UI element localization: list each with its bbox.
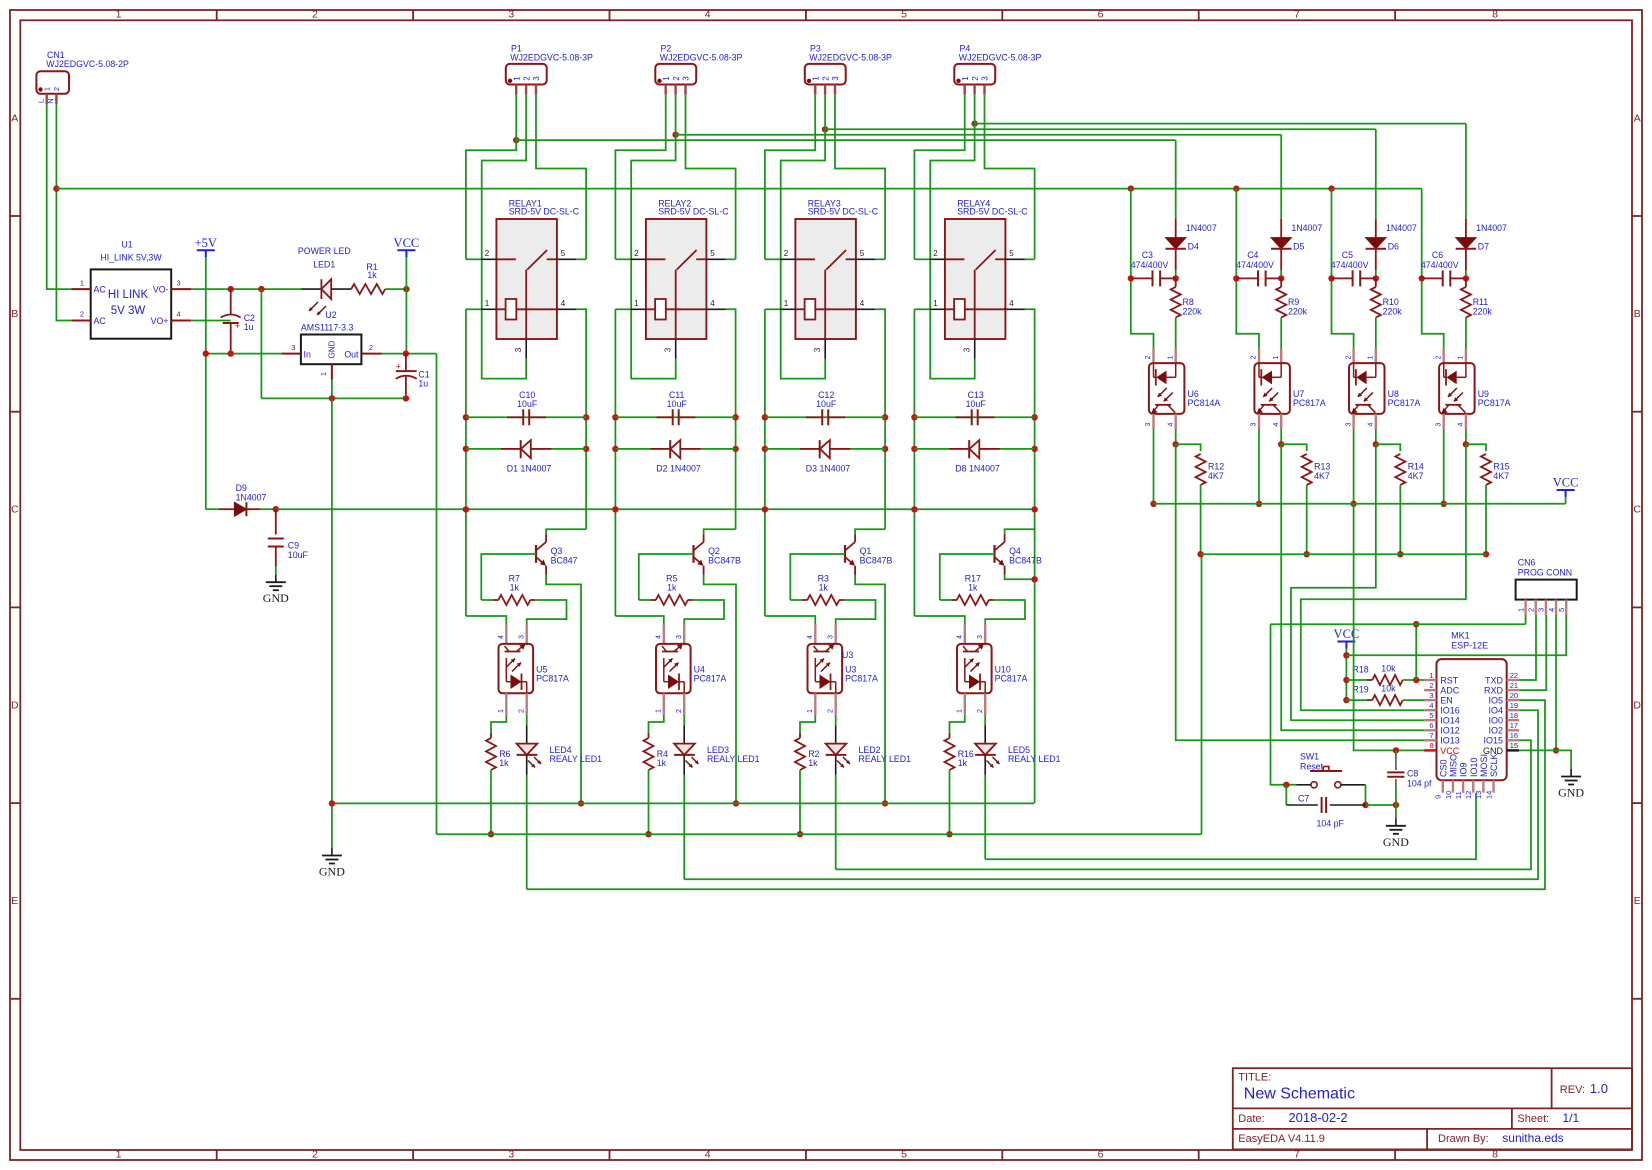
diode D6 1N4007 (1366, 219, 1417, 279)
svg-text:2: 2 (312, 9, 318, 21)
svg-text:4: 4 (807, 635, 814, 639)
wire opto pin4 junction (1465, 429, 1467, 444)
svg-text:8: 8 (1492, 9, 1498, 21)
svg-text:CS0: CS0 (1438, 759, 1448, 777)
svg-text:CN6: CN6 (1518, 558, 1536, 568)
connector CN6 PROG CONN (1516, 558, 1577, 615)
junction R1 / VCC riser (403, 286, 409, 292)
svg-text:1N4007: 1N4007 (1386, 223, 1417, 233)
svg-text:Sheet:: Sheet: (1517, 1113, 1549, 1125)
svg-text:4: 4 (957, 635, 964, 639)
svg-text:6: 6 (1429, 721, 1433, 730)
svg-text:AMS1117-3.3: AMS1117-3.3 (301, 323, 354, 333)
junction C4 right (1278, 275, 1284, 281)
wire P4 pin2 to relay pin3 (930, 95, 975, 379)
resistor R18 10k (1346, 663, 1424, 685)
junction CN1 pin2 / AC bus (53, 185, 59, 191)
wire D2 flyback row (615, 448, 735, 450)
wire VCC branch riser to LED bus (436, 354, 438, 835)
wire relay1 pin1 down (466, 308, 481, 310)
svg-text:2: 2 (1527, 608, 1536, 612)
wire snubber feed down to D6 (1375, 129, 1377, 219)
wire D8 flyback row (914, 448, 1034, 450)
resistor R6 1k (486, 733, 511, 834)
optocoupler U9 PC817A (1435, 349, 1510, 430)
wire snubber bus P1 (516, 139, 1175, 141)
svg-text:5: 5 (1009, 249, 1014, 258)
wire relay3 pin5 stub (875, 258, 885, 260)
wire base of Q1 (790, 554, 845, 600)
svg-text:2: 2 (1429, 681, 1433, 690)
ground symbol C8 (1395, 818, 1397, 826)
wire P2 pin3 to relay pin5 (686, 95, 736, 260)
svg-text:3: 3 (177, 278, 181, 287)
svg-text:2: 2 (1145, 355, 1152, 359)
svg-text:1: 1 (957, 709, 964, 713)
relay RELAY4 SRD-5V DC-SL-C (929, 198, 1028, 358)
wire R17 to opto pin3 (985, 600, 1025, 624)
regulator U2 AMS1117-3.3 (281, 310, 381, 380)
svg-text:3: 3 (1145, 422, 1152, 426)
svg-text:10: 10 (1444, 791, 1453, 799)
wire relay2 pin1 down (615, 308, 630, 310)
junction R14 / pullup bus (1397, 551, 1403, 557)
wire channel 2 signal to ESP (1281, 444, 1424, 730)
svg-text:1: 1 (80, 278, 84, 287)
svg-text:IO2: IO2 (1488, 726, 1503, 736)
wire relay4 pin1 down (914, 308, 929, 310)
wire R5 to opto pin3 (684, 600, 724, 624)
transistor Q1 BC847B (845, 534, 892, 575)
svg-text:1k: 1k (657, 758, 667, 768)
svg-text:N: N (46, 98, 55, 103)
svg-text:4: 4 (860, 299, 865, 308)
svg-text:E: E (1634, 895, 1641, 907)
capacitor C11 10uF (657, 390, 696, 425)
resistor R2 1k (795, 733, 820, 834)
svg-text:4: 4 (1547, 608, 1556, 612)
wire CN6 pin2 to TXD (1519, 615, 1536, 680)
svg-text:1: 1 (662, 76, 671, 81)
wire RST net riser (1415, 624, 1417, 680)
capacitor C13 10uF (956, 390, 995, 425)
wire channel 3 signal to ESP (1291, 444, 1424, 720)
junction emitter / GND bus (578, 800, 584, 806)
svg-text:SW1: SW1 (1300, 752, 1319, 762)
wire snubber bus P3 (825, 128, 1376, 130)
svg-text:1: 1 (512, 76, 521, 81)
svg-text:D: D (1633, 699, 1641, 711)
wire P1 pin1 to relay pin2 (466, 95, 516, 260)
svg-text:6: 6 (1098, 9, 1104, 21)
wire base of Q2 (639, 554, 694, 600)
svg-text:R9: R9 (1288, 297, 1299, 307)
wire opto pin4 junction (1375, 429, 1377, 444)
svg-text:4: 4 (1273, 422, 1280, 426)
diode D3 1N4007 (800, 440, 850, 473)
capacitor C12 10uF (806, 390, 845, 425)
svg-text:PC817A: PC817A (1293, 398, 1326, 408)
junction SW1 right / C7 row (1362, 802, 1368, 808)
resistor R16 1k (945, 733, 974, 834)
capacitor C2 1u (221, 289, 255, 354)
svg-text:5: 5 (1429, 711, 1433, 720)
junction D2 row right (732, 446, 738, 452)
svg-text:1k: 1k (968, 583, 978, 593)
svg-text:GND: GND (1558, 786, 1584, 800)
svg-text:ESP-12E: ESP-12E (1451, 640, 1488, 650)
svg-text:2: 2 (80, 310, 84, 319)
wire collector feed (855, 529, 885, 534)
svg-text:REALY LED1: REALY LED1 (550, 754, 603, 764)
junction C3 right (1173, 275, 1179, 281)
svg-text:L: L (37, 99, 46, 103)
junction C12 row right (882, 414, 888, 420)
junction R16 / VCC LED bus (946, 831, 952, 837)
junction +5V bus col4 (911, 506, 917, 512)
junction D8 row left (911, 446, 917, 452)
wire GND riser from VO- row (260, 289, 262, 398)
svg-text:3: 3 (1429, 691, 1433, 700)
svg-text:U3: U3 (842, 650, 853, 660)
wire opto pin1 to R6 (491, 715, 506, 733)
diode D1 1N4007 (501, 440, 551, 473)
wire GND row under U2 (261, 397, 406, 399)
svg-text:2018-02-2: 2018-02-2 (1288, 1110, 1347, 1125)
switch SW1 Reset (1296, 752, 1365, 788)
junction C2 / In row (228, 350, 234, 356)
svg-text:HI_LINK 5V,3W: HI_LINK 5V,3W (100, 253, 162, 263)
optocoupler U5 PC817A (498, 624, 569, 715)
svg-text:AC: AC (94, 285, 107, 295)
svg-text:20: 20 (1510, 691, 1518, 700)
svg-text:WJ2EDGVC-5.08-2P: WJ2EDGVC-5.08-2P (46, 59, 129, 69)
svg-text:IO12: IO12 (1440, 726, 1460, 736)
junction +5V bus col1 (463, 506, 469, 512)
diode D7 1N4007 (1456, 219, 1507, 279)
resistor R14 4K7 (1395, 454, 1424, 554)
wire pullup bus (1201, 553, 1486, 555)
svg-text:WJ2EDGVC-5.08-3P: WJ2EDGVC-5.08-3P (809, 53, 892, 63)
svg-text:SCLK: SCLK (1489, 753, 1499, 777)
svg-text:10k: 10k (1381, 663, 1396, 673)
svg-text:5V 3W: 5V 3W (111, 305, 146, 317)
svg-text:PROG CONN: PROG CONN (1518, 568, 1572, 578)
svg-text:4: 4 (1368, 422, 1375, 426)
svg-text:2: 2 (52, 87, 61, 91)
svg-text:C4: C4 (1247, 250, 1258, 260)
svg-text:C: C (11, 504, 19, 516)
svg-text:Drawn By:: Drawn By: (1438, 1133, 1489, 1145)
svg-text:U2: U2 (325, 310, 336, 320)
svg-text:D8 1N4007: D8 1N4007 (955, 463, 1000, 473)
wire pin4 to R14 (1376, 444, 1401, 451)
wire LED2 row to ESP IO15 (836, 740, 1531, 869)
svg-text:2: 2 (1345, 355, 1352, 359)
junction +5V bus col2 (612, 506, 618, 512)
resistor R12 4K7 (1196, 454, 1225, 554)
wire C12 snubber row (765, 416, 885, 418)
svg-text:Q2: Q2 (708, 546, 720, 556)
svg-text:3: 3 (1345, 422, 1352, 426)
svg-text:R19: R19 (1353, 685, 1369, 695)
optocoupler U10 PC817A (957, 624, 1028, 715)
svg-text:REV:: REV: (1560, 1084, 1585, 1096)
wire AC live bus (56, 188, 1421, 190)
svg-text:REALY LED1: REALY LED1 (859, 754, 912, 764)
svg-text:1: 1 (116, 9, 122, 21)
resistor R13 4K7 (1302, 454, 1331, 554)
svg-text:+: + (396, 362, 401, 372)
svg-text:RST: RST (1440, 675, 1459, 685)
junction AC bus col C3 (1128, 185, 1134, 191)
svg-text:21: 21 (1510, 681, 1518, 690)
wire U1 pin3 row (VO-) (191, 288, 301, 290)
wire opto pin1 to R4 (649, 715, 664, 733)
svg-text:1k: 1k (499, 758, 509, 768)
svg-text:3: 3 (291, 343, 295, 352)
resistor R7 1k (481, 574, 535, 606)
svg-text:GND: GND (1383, 835, 1409, 849)
svg-text:10uF: 10uF (966, 399, 987, 409)
svg-text:2: 2 (1251, 355, 1258, 359)
svg-text:GND: GND (319, 865, 345, 879)
wire GND bus horizontal (332, 802, 1034, 804)
junction CN6 pin4 / GND row (1553, 747, 1559, 753)
wire +5V bus jog to opto pin4 (615, 616, 663, 624)
wire P3 pin3 to relay pin5 (835, 95, 885, 260)
svg-text:9: 9 (1434, 795, 1443, 799)
junction VCC/CN6 pin5 wire (1343, 652, 1349, 658)
svg-text:A: A (1634, 112, 1641, 124)
junction D9 / +5V bus (273, 506, 279, 512)
connector CN1 WJ2EDGVC-5.08-2P (36, 50, 129, 104)
svg-text:C7: C7 (1298, 794, 1309, 804)
svg-text:New Schematic: New Schematic (1244, 1086, 1355, 1103)
junction R13 / pullup bus (1304, 551, 1310, 557)
svg-text:4: 4 (1009, 299, 1014, 308)
wire LED5 cathode down (984, 775, 986, 859)
svg-text:WJ2EDGVC-5.08-3P: WJ2EDGVC-5.08-3P (660, 53, 743, 63)
svg-text:1k: 1k (510, 583, 520, 593)
transistor Q3 BC847 (536, 534, 578, 575)
capacitor C9 10uF (268, 509, 309, 575)
svg-text:BC847B: BC847B (1009, 556, 1042, 566)
junction GND bus left (329, 800, 335, 806)
junction pin3 VCC bus (1256, 501, 1262, 507)
svg-text:3: 3 (676, 635, 683, 639)
svg-text:2: 2 (518, 709, 525, 713)
resistor R5 1k (639, 574, 693, 606)
junction R12 / pullup bus (1197, 551, 1203, 557)
svg-text:5: 5 (1557, 608, 1566, 612)
svg-text:104 pF: 104 pF (1317, 819, 1345, 829)
wire AC bus to opto pin2 (C6 column) (1422, 189, 1444, 349)
wire VCC riser (405, 257, 407, 354)
svg-text:19: 19 (1510, 701, 1518, 710)
svg-text:SRD-5V DC-SL-C: SRD-5V DC-SL-C (509, 207, 580, 217)
svg-text:2: 2 (971, 76, 980, 81)
power module U1 HI_LINK 5V,3W (71, 239, 191, 338)
svg-text:IO0: IO0 (1488, 716, 1503, 726)
svg-text:REALY LED1: REALY LED1 (1008, 754, 1061, 764)
svg-text:PC817A: PC817A (845, 674, 878, 684)
wire U2 Out to VCC node (382, 353, 437, 355)
svg-text:1N4007: 1N4007 (1186, 223, 1217, 233)
svg-text:6: 6 (1098, 1149, 1104, 1161)
wire SW1 right to C7 row (1365, 785, 1367, 805)
svg-text:IO14: IO14 (1440, 716, 1460, 726)
junction +5V bus end (1031, 506, 1037, 512)
junction VO- / C2 (228, 286, 234, 292)
svg-text:3: 3 (981, 76, 990, 81)
relay RELAY1 SRD-5V DC-SL-C (481, 198, 580, 358)
svg-text:1N4007: 1N4007 (1291, 223, 1322, 233)
svg-text:220k: 220k (1383, 307, 1403, 317)
svg-text:B: B (1634, 308, 1641, 320)
svg-text:Q3: Q3 (551, 546, 563, 556)
svg-text:AC: AC (94, 316, 107, 326)
svg-text:VO+: VO+ (151, 316, 169, 326)
wire relay2 pin4 down (726, 309, 736, 529)
svg-text:2: 2 (522, 76, 531, 81)
svg-text:11: 11 (1454, 791, 1463, 799)
svg-text:A: A (11, 112, 18, 124)
diode D5 1N4007 (1271, 219, 1322, 279)
resistor R17 1k (940, 574, 994, 606)
ground symbol right (1570, 769, 1572, 777)
junction +5V riser / In row (203, 350, 209, 356)
junction P3 snubber bus tap (822, 126, 828, 132)
optocoupler U6 PC814A (1145, 349, 1220, 430)
wire P3 pin1 to relay pin2 (765, 95, 815, 260)
svg-text:2: 2 (784, 249, 789, 258)
svg-text:D3 1N4007: D3 1N4007 (806, 463, 851, 473)
svg-text:4K7: 4K7 (1408, 471, 1424, 481)
svg-text:5: 5 (901, 9, 907, 21)
wire pin4 to R12 (1176, 444, 1201, 451)
wire P4 pin1 to relay pin2 (914, 95, 964, 260)
svg-text:GND: GND (328, 340, 337, 358)
junction VO- / GND riser (258, 286, 264, 292)
svg-text:1k: 1k (958, 758, 968, 768)
svg-text:2: 2 (369, 343, 373, 352)
junction C5 right (1373, 275, 1379, 281)
svg-text:C: C (1633, 504, 1641, 516)
svg-text:2: 2 (827, 709, 834, 713)
wire emitter of Q1 (855, 575, 885, 804)
junction D3 row left (762, 446, 768, 452)
junction C7 row / C8 bottom (1393, 802, 1399, 808)
junction AC bus col C5 (1328, 185, 1334, 191)
svg-text:3: 3 (1251, 422, 1258, 426)
svg-text:3: 3 (827, 635, 834, 639)
svg-text:2: 2 (977, 709, 984, 713)
junction P4 snubber bus tap (971, 120, 977, 126)
junction R2 / VCC LED bus (797, 831, 803, 837)
wire emitter of Q3 (546, 575, 581, 804)
wire LED3 cathode down (683, 775, 685, 879)
wire pin4 to R15 (1466, 444, 1486, 451)
svg-text:IO13: IO13 (1440, 736, 1460, 746)
svg-text:17: 17 (1510, 721, 1518, 730)
svg-text:3: 3 (813, 347, 822, 352)
junction emitter / GND bus (882, 800, 888, 806)
junction R18 left (1343, 677, 1349, 683)
resistor R15 4K7 (1481, 454, 1510, 554)
wire snubber feed down to D5 (1280, 135, 1282, 219)
wire relay1 pin5 stub (576, 258, 586, 260)
svg-text:C8: C8 (1407, 769, 1418, 779)
svg-text:EasyEDA V4.11.9: EasyEDA V4.11.9 (1238, 1133, 1325, 1145)
wire relay4 pin4 down (1025, 309, 1035, 803)
svg-text:1.0: 1.0 (1590, 1081, 1608, 1096)
svg-text:3: 3 (664, 347, 673, 352)
svg-text:+: + (235, 321, 240, 331)
junction P2 snubber bus tap (672, 132, 678, 138)
svg-text:1N4007: 1N4007 (1476, 223, 1507, 233)
junction D2 row left (612, 446, 618, 452)
module MK1 ESP-12E (1424, 630, 1519, 799)
resistor R3 1k (790, 574, 844, 606)
wire collector feed (546, 529, 586, 534)
svg-text:220k: 220k (1288, 307, 1308, 317)
wire snubber bus P2 (676, 134, 1282, 136)
junction emitter / GND bus (733, 800, 739, 806)
svg-text:2: 2 (933, 249, 938, 258)
svg-text:D6: D6 (1388, 242, 1399, 252)
capacitor C10 10uF (507, 390, 546, 425)
capacitor C8 104 pf (1387, 750, 1432, 805)
svg-text:1: 1 (961, 76, 970, 81)
connector P4 WJ2EDGVC-5.08-3P (954, 43, 1041, 94)
svg-text:8: 8 (1492, 1149, 1498, 1161)
svg-text:MOSI: MOSI (1479, 754, 1489, 777)
junction SW1 left / C7 riser (1283, 782, 1289, 788)
junction D1 row left (463, 446, 469, 452)
wire VCC flag stem (1565, 497, 1567, 504)
svg-text:7: 7 (1294, 9, 1300, 21)
wire VCC flag riser (1345, 649, 1347, 701)
transistor Q4 BC847B (995, 534, 1042, 575)
capacitor C4 474/400V (1236, 250, 1281, 286)
wire VCC LED bus horizontal (437, 833, 1202, 835)
power led LED1 (298, 246, 351, 315)
svg-text:4: 4 (1458, 422, 1465, 426)
wire C10 snubber row (466, 416, 586, 418)
wire relay3 pin4 down (875, 309, 885, 529)
wire +5V relay bus (276, 508, 1035, 510)
svg-text:4: 4 (1167, 422, 1174, 426)
junction Out / C1 (403, 350, 409, 356)
resistor R9 220k (1276, 278, 1307, 348)
svg-text:10uF: 10uF (816, 399, 837, 409)
optocoupler U3 PC817A (807, 624, 878, 715)
svg-text:PC817A: PC817A (694, 674, 727, 684)
wire AC bus to opto pin2 (C5 column) (1332, 189, 1354, 349)
resistor R11 220k (1461, 278, 1492, 348)
svg-text:IO10: IO10 (1469, 757, 1479, 777)
svg-text:220k: 220k (1183, 307, 1203, 317)
connector P3 WJ2EDGVC-5.08-3P (805, 43, 892, 94)
svg-text:5: 5 (901, 1149, 907, 1161)
svg-text:R18: R18 (1353, 664, 1369, 674)
svg-text:1: 1 (1368, 355, 1375, 359)
svg-text:PC814A: PC814A (1188, 398, 1221, 408)
svg-text:TXD: TXD (1485, 675, 1504, 685)
svg-text:LED1: LED1 (313, 259, 335, 269)
wire opto pin4 junction (1175, 429, 1177, 444)
